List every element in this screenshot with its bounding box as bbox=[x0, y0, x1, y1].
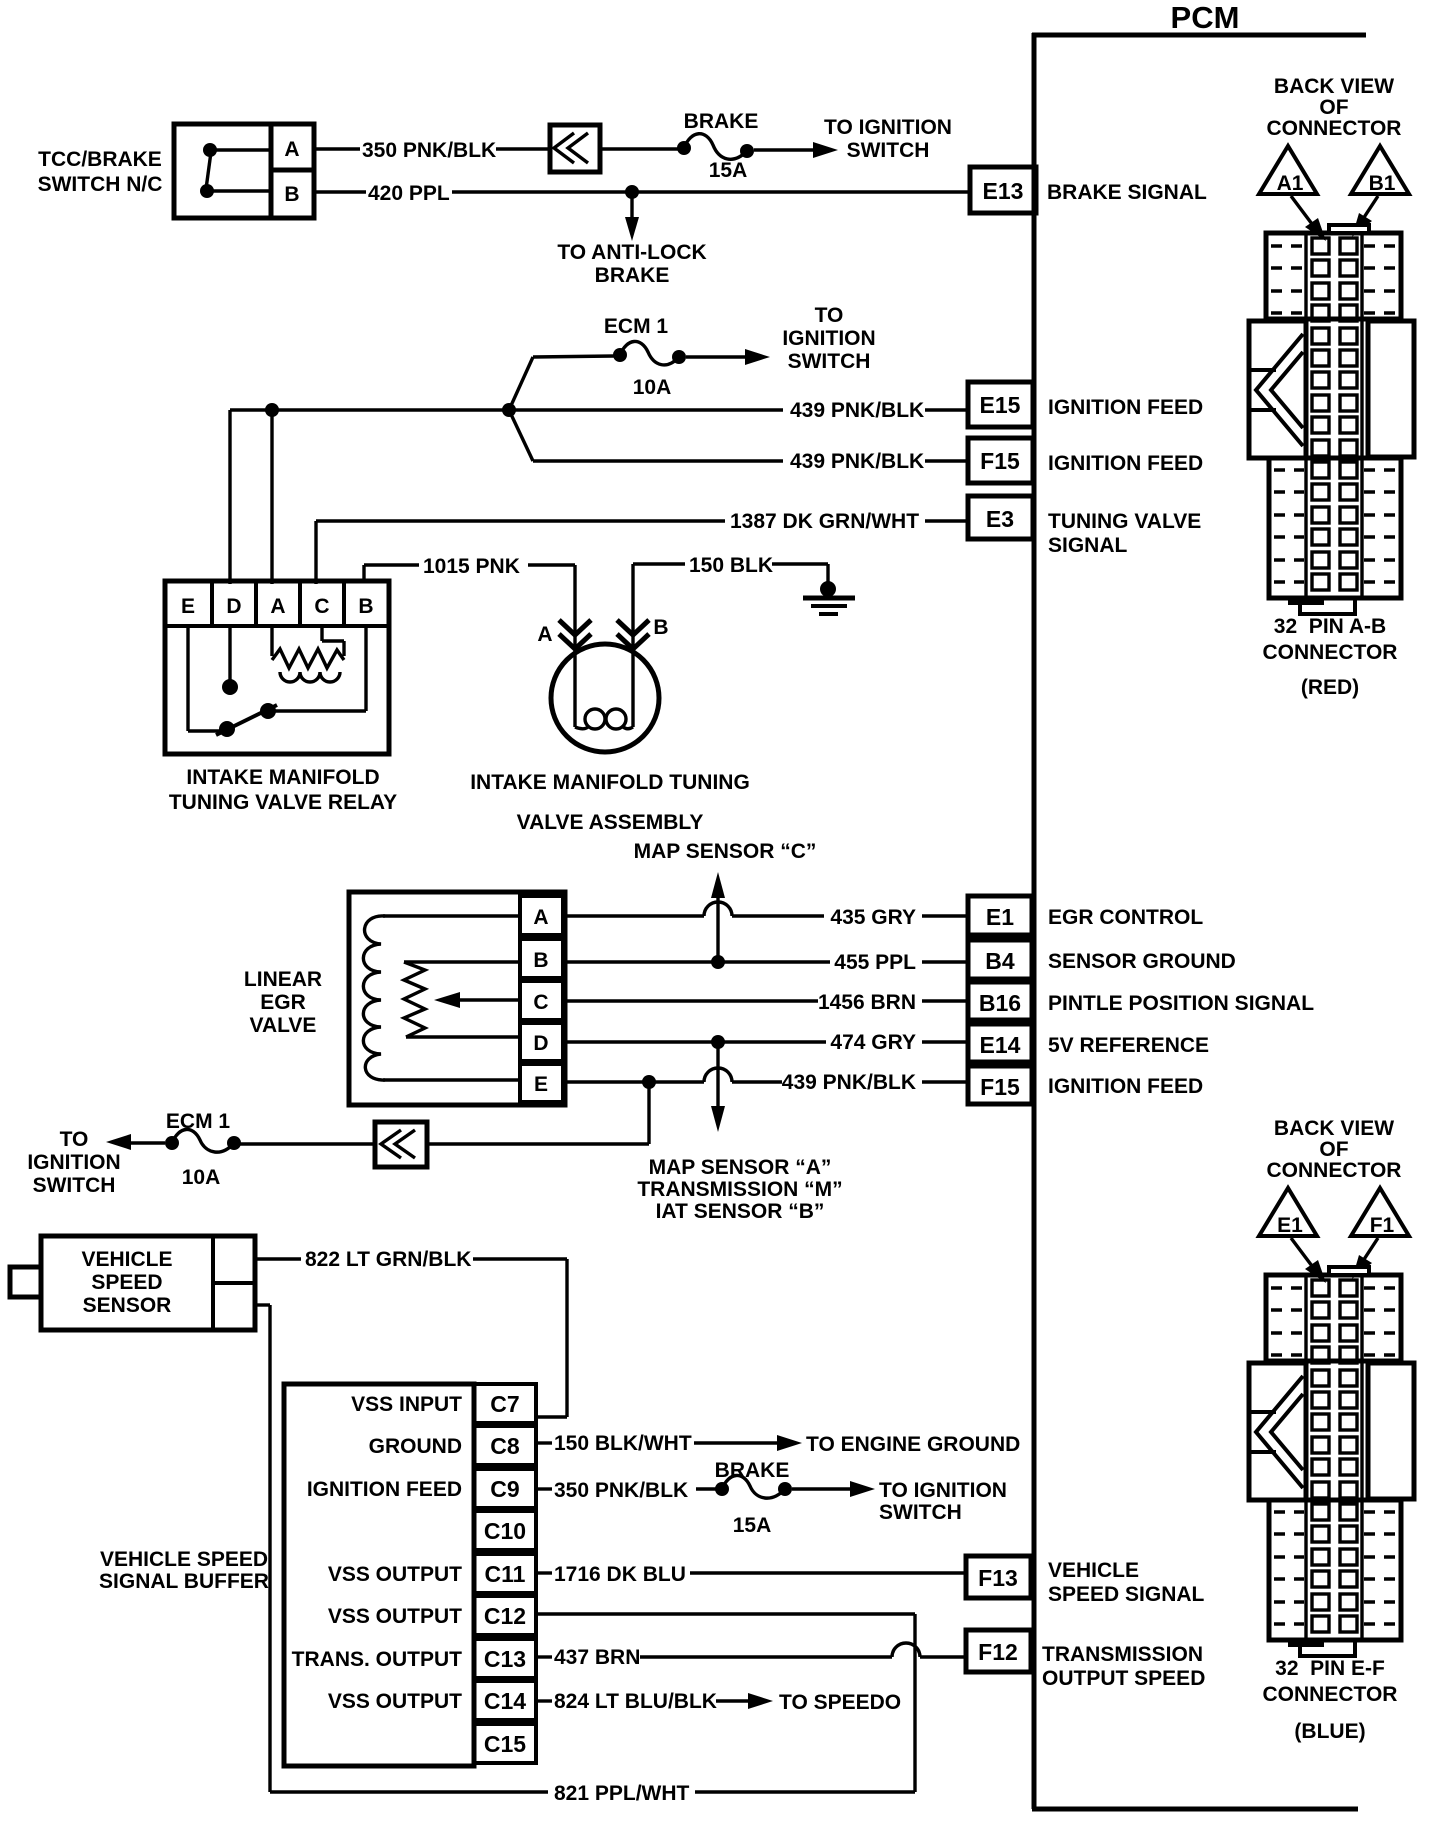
arrow TO IGNITION SWITCH bbox=[754, 116, 952, 162]
EGR solenoid coil bbox=[363, 916, 520, 1080]
svg-text:B16: B16 bbox=[979, 990, 1021, 1016]
pin F15 IGNITION FEED bbox=[968, 438, 1203, 483]
svg-text:435 GRY: 435 GRY bbox=[830, 906, 916, 929]
svg-text:SENSOR GROUND: SENSOR GROUND bbox=[1048, 950, 1236, 973]
svg-text:B: B bbox=[653, 616, 668, 639]
wire 474 GRY to E14 bbox=[563, 1031, 970, 1054]
svg-text:A1: A1 bbox=[1277, 172, 1304, 195]
wire 435 GRY to E1 bbox=[563, 902, 970, 929]
vehicle speed signal buffer bbox=[99, 1384, 536, 1766]
svg-text:MAP SENSOR “A”: MAP SENSOR “A” bbox=[649, 1156, 832, 1179]
svg-text:VALVE: VALVE bbox=[250, 1014, 317, 1037]
svg-text:TRANS. OUTPUT: TRANS. OUTPUT bbox=[292, 1648, 463, 1671]
svg-text:5V REFERENCE: 5V REFERENCE bbox=[1048, 1034, 1209, 1057]
svg-text:420 PPL: 420 PPL bbox=[368, 182, 450, 205]
svg-text:TO: TO bbox=[60, 1128, 89, 1151]
wire 455 PPL to B4 bbox=[563, 951, 970, 974]
svg-text:BRAKE: BRAKE bbox=[715, 1459, 790, 1482]
svg-text:ECM 1: ECM 1 bbox=[604, 315, 669, 338]
svg-text:TO SPEEDO: TO SPEEDO bbox=[779, 1691, 901, 1714]
valve assembly terminal B bbox=[617, 616, 669, 649]
svg-text:BACK VIEW: BACK VIEW bbox=[1274, 1117, 1394, 1140]
wire 821 PPL/WHT bbox=[255, 1305, 915, 1805]
inline connector symbol (lower) bbox=[375, 1122, 427, 1167]
svg-text:TUNING VALVE RELAY: TUNING VALVE RELAY bbox=[169, 791, 397, 814]
svg-text:350 PNK/BLK: 350 PNK/BLK bbox=[362, 139, 496, 162]
svg-text:A: A bbox=[284, 138, 299, 161]
wire 822 LT GRN/BLK bbox=[255, 1248, 567, 1417]
svg-text:1015 PNK: 1015 PNK bbox=[423, 555, 520, 578]
EGR pintle resistor bbox=[404, 962, 520, 1037]
svg-text:439 PNK/BLK: 439 PNK/BLK bbox=[782, 1071, 916, 1094]
svg-text:BRAKE: BRAKE bbox=[684, 110, 759, 133]
pin F15 IGNITION FEED (EGR) bbox=[968, 1066, 1203, 1104]
svg-text:TRANSMISSION “M”: TRANSMISSION “M” bbox=[637, 1178, 842, 1201]
svg-text:A: A bbox=[537, 623, 552, 646]
svg-text:10A: 10A bbox=[182, 1166, 221, 1189]
svg-text:PCM: PCM bbox=[1171, 0, 1240, 35]
svg-text:E1: E1 bbox=[1277, 1214, 1303, 1237]
svg-text:SWITCH: SWITCH bbox=[788, 350, 871, 373]
svg-text:C: C bbox=[533, 991, 548, 1014]
svg-text:350 PNK/BLK: 350 PNK/BLK bbox=[554, 1479, 688, 1502]
wire 350 PNK/BLK bbox=[314, 139, 550, 162]
wire fork to ECM1 fuse bbox=[509, 357, 533, 410]
svg-text:E15: E15 bbox=[980, 392, 1021, 418]
wire 1456 BRN to B16 bbox=[563, 991, 970, 1014]
arrow TO ANTI-LOCK BRAKE bbox=[557, 192, 706, 287]
svg-text:SENSOR: SENSOR bbox=[83, 1294, 172, 1317]
svg-text:TCC/BRAKE: TCC/BRAKE bbox=[38, 148, 162, 171]
pin E3 TUNING VALVE SIGNAL bbox=[968, 496, 1201, 557]
pin B4 SENSOR GROUND bbox=[968, 940, 1236, 979]
wire 1015 PNK bbox=[364, 555, 575, 727]
svg-text:E: E bbox=[181, 595, 195, 618]
fuse BRAKE 15A bbox=[677, 110, 758, 182]
svg-text:822 LT GRN/BLK: 822 LT GRN/BLK bbox=[305, 1248, 471, 1271]
pin F12 TRANSMISSION OUTPUT SPEED bbox=[966, 1630, 1205, 1690]
svg-text:C7: C7 bbox=[490, 1391, 519, 1417]
wire 1716 DK BLU to F13 bbox=[536, 1563, 968, 1586]
svg-text:C12: C12 bbox=[484, 1603, 526, 1629]
svg-text:TO IGNITION: TO IGNITION bbox=[879, 1479, 1007, 1502]
svg-text:C11: C11 bbox=[485, 1561, 526, 1587]
svg-text:(RED): (RED) bbox=[1301, 676, 1359, 699]
svg-text:32 PIN E-F: 32 PIN E-F bbox=[1275, 1657, 1385, 1680]
svg-text:455 PPL: 455 PPL bbox=[834, 951, 916, 974]
svg-text:C9: C9 bbox=[490, 1476, 519, 1502]
svg-text:OUTPUT SPEED: OUTPUT SPEED bbox=[1042, 1667, 1205, 1690]
svg-text:1716 DK BLU: 1716 DK BLU bbox=[554, 1563, 686, 1586]
svg-text:IGNITION FEED: IGNITION FEED bbox=[1048, 396, 1203, 419]
vehicle speed sensor bbox=[10, 1236, 255, 1330]
svg-text:824 LT BLU/BLK: 824 LT BLU/BLK bbox=[554, 1690, 717, 1713]
wire 420 PPL to E13 bbox=[314, 182, 970, 205]
svg-text:IGNITION FEED: IGNITION FEED bbox=[1048, 452, 1203, 475]
inline connector symbol bbox=[550, 125, 600, 172]
svg-text:A: A bbox=[270, 595, 285, 618]
svg-text:439 PNK/BLK: 439 PNK/BLK bbox=[790, 399, 924, 422]
svg-text:TO ENGINE GROUND: TO ENGINE GROUND bbox=[806, 1433, 1020, 1456]
svg-text:BACK VIEW: BACK VIEW bbox=[1274, 75, 1394, 98]
wire 824 LT BLU/BLK TO SPEEDO bbox=[536, 1690, 901, 1714]
pin F13 VEHICLE SPEED SIGNAL bbox=[966, 1556, 1205, 1606]
arrow TO IGNITION SWITCH (lower left) bbox=[27, 1128, 165, 1197]
svg-text:437 BRN: 437 BRN bbox=[554, 1646, 640, 1669]
svg-text:IGNITION: IGNITION bbox=[27, 1151, 120, 1174]
wire 437 BRN to F12 bbox=[536, 1643, 968, 1669]
svg-text:VSS OUTPUT: VSS OUTPUT bbox=[328, 1690, 462, 1713]
linear EGR valve bbox=[244, 892, 565, 1105]
svg-text:CONNECTOR: CONNECTOR bbox=[1263, 1683, 1398, 1706]
svg-text:OF: OF bbox=[1319, 1138, 1348, 1161]
svg-text:B4: B4 bbox=[985, 948, 1015, 974]
svg-text:10A: 10A bbox=[633, 376, 672, 399]
svg-text:VSS INPUT: VSS INPUT bbox=[351, 1393, 462, 1416]
svg-text:BRAKE: BRAKE bbox=[595, 264, 670, 287]
svg-text:INTAKE MANIFOLD TUNING: INTAKE MANIFOLD TUNING bbox=[470, 771, 750, 794]
svg-text:SPEED SIGNAL: SPEED SIGNAL bbox=[1048, 1583, 1205, 1606]
svg-text:TRANSMISSION: TRANSMISSION bbox=[1042, 1643, 1203, 1666]
svg-text:MAP SENSOR “C”: MAP SENSOR “C” bbox=[634, 840, 817, 863]
svg-text:SWITCH: SWITCH bbox=[33, 1174, 116, 1197]
svg-text:LINEAR: LINEAR bbox=[244, 968, 322, 991]
relay switch contacts bbox=[188, 626, 366, 737]
connector 32 PIN A-B (RED) back view bbox=[1249, 75, 1414, 699]
svg-text:SWITCH N/C: SWITCH N/C bbox=[38, 173, 163, 196]
svg-text:OF: OF bbox=[1319, 96, 1348, 119]
svg-text:SWITCH: SWITCH bbox=[879, 1501, 962, 1524]
svg-text:821 PPL/WHT: 821 PPL/WHT bbox=[554, 1782, 690, 1805]
svg-text:B: B bbox=[358, 595, 373, 618]
fuse ECM 1 10A (lower) bbox=[165, 1110, 375, 1189]
wire 350 PNK/BLK with fuse BRAKE 15A (buffer) bbox=[536, 1459, 1007, 1537]
svg-text:1456 BRN: 1456 BRN bbox=[818, 991, 916, 1014]
svg-text:D: D bbox=[226, 595, 241, 618]
svg-text:VSS OUTPUT: VSS OUTPUT bbox=[328, 1605, 462, 1628]
svg-text:EGR CONTROL: EGR CONTROL bbox=[1048, 906, 1203, 929]
svg-text:CONNECTOR: CONNECTOR bbox=[1267, 117, 1402, 140]
svg-text:CONNECTOR: CONNECTOR bbox=[1263, 641, 1398, 664]
svg-text:TO ANTI-LOCK: TO ANTI-LOCK bbox=[557, 241, 706, 264]
relay INTAKE MANIFOLD TUNING VALVE RELAY bbox=[165, 581, 397, 814]
svg-text:CONNECTOR: CONNECTOR bbox=[1267, 1159, 1402, 1182]
relay coil bbox=[272, 626, 344, 682]
wire 150 BLK bbox=[633, 554, 828, 727]
svg-text:15A: 15A bbox=[733, 1514, 772, 1537]
svg-text:C8: C8 bbox=[490, 1433, 520, 1459]
PCM module outline bbox=[1032, 0, 1366, 1809]
svg-text:TO: TO bbox=[815, 304, 844, 327]
svg-text:A: A bbox=[533, 906, 548, 929]
wire to fuse bbox=[600, 147, 678, 150]
svg-text:VEHICLE SPEED: VEHICLE SPEED bbox=[100, 1548, 268, 1571]
svg-text:474 GRY: 474 GRY bbox=[830, 1031, 916, 1054]
pin E13 BRAKE SIGNAL bbox=[970, 167, 1207, 213]
svg-text:E1: E1 bbox=[986, 904, 1014, 930]
svg-text:439 PNK/BLK: 439 PNK/BLK bbox=[790, 450, 924, 473]
svg-text:IGNITION FEED: IGNITION FEED bbox=[1048, 1075, 1203, 1098]
ground bbox=[803, 581, 855, 614]
pin E15 IGNITION FEED bbox=[968, 382, 1203, 427]
svg-text:IAT SENSOR “B”: IAT SENSOR “B” bbox=[656, 1200, 825, 1223]
svg-text:D: D bbox=[533, 1032, 548, 1055]
svg-text:TO IGNITION: TO IGNITION bbox=[824, 116, 952, 139]
svg-text:SWITCH: SWITCH bbox=[847, 139, 930, 162]
svg-text:C: C bbox=[314, 595, 329, 618]
svg-text:15A: 15A bbox=[709, 159, 748, 182]
svg-text:C14: C14 bbox=[484, 1688, 526, 1714]
svg-text:E14: E14 bbox=[980, 1032, 1021, 1058]
connector 32 PIN E-F (BLUE) back view bbox=[1249, 1117, 1414, 1743]
svg-text:SPEED: SPEED bbox=[91, 1271, 162, 1294]
svg-text:C15: C15 bbox=[484, 1731, 526, 1757]
svg-text:150 BLK: 150 BLK bbox=[689, 554, 773, 577]
svg-text:SIGNAL BUFFER: SIGNAL BUFFER bbox=[99, 1570, 269, 1593]
svg-text:E: E bbox=[534, 1073, 548, 1096]
svg-text:(BLUE): (BLUE) bbox=[1294, 1720, 1365, 1743]
svg-text:E13: E13 bbox=[983, 178, 1024, 204]
svg-text:VALVE ASSEMBLY: VALVE ASSEMBLY bbox=[517, 811, 704, 834]
node MAP SENSOR C tap bbox=[634, 840, 817, 962]
svg-text:VEHICLE: VEHICLE bbox=[81, 1248, 172, 1271]
fuse ECM 1 10A bbox=[604, 315, 686, 399]
svg-text:B: B bbox=[533, 949, 548, 972]
svg-text:F1: F1 bbox=[1370, 1214, 1395, 1237]
svg-text:B1: B1 bbox=[1369, 172, 1396, 195]
svg-text:1387 DK GRN/WHT: 1387 DK GRN/WHT bbox=[730, 510, 919, 533]
svg-text:VSS OUTPUT: VSS OUTPUT bbox=[328, 1563, 462, 1586]
svg-text:VEHICLE: VEHICLE bbox=[1048, 1559, 1139, 1582]
wire 439 PNK/BLK to E15 bbox=[509, 399, 970, 422]
svg-text:C10: C10 bbox=[484, 1518, 526, 1544]
svg-text:IGNITION: IGNITION bbox=[782, 327, 875, 350]
wire 150 BLK/WHT TO ENGINE GROUND bbox=[536, 1432, 1020, 1456]
wire 439 PNK/BLK to F15 bbox=[563, 1068, 970, 1094]
svg-text:C13: C13 bbox=[484, 1646, 526, 1672]
pin E1 EGR CONTROL bbox=[968, 896, 1203, 935]
svg-text:32 PIN A-B: 32 PIN A-B bbox=[1274, 615, 1386, 638]
svg-text:INTAKE MANIFOLD: INTAKE MANIFOLD bbox=[186, 766, 379, 789]
node MAP/TRANS/IAT tap bbox=[637, 1042, 842, 1223]
EGR wiper arrow bbox=[434, 992, 520, 1008]
svg-text:F13: F13 bbox=[978, 1565, 1018, 1591]
svg-text:BRAKE SIGNAL: BRAKE SIGNAL bbox=[1047, 181, 1207, 204]
svg-text:F15: F15 bbox=[980, 1074, 1020, 1100]
svg-text:PINTLE POSITION SIGNAL: PINTLE POSITION SIGNAL bbox=[1048, 992, 1314, 1015]
switch TCC/BRAKE SWITCH N/C bbox=[38, 124, 314, 218]
wire EGR ignition feed to ECM1 fuse bbox=[429, 1082, 649, 1144]
svg-text:EGR: EGR bbox=[260, 991, 306, 1014]
svg-text:TUNING VALVE: TUNING VALVE bbox=[1048, 510, 1201, 533]
svg-text:GROUND: GROUND bbox=[369, 1435, 462, 1458]
svg-text:E3: E3 bbox=[986, 506, 1014, 532]
pin E14 5V REFERENCE bbox=[968, 1024, 1209, 1062]
pin B16 PINTLE POSITION SIGNAL bbox=[968, 982, 1314, 1020]
svg-text:F12: F12 bbox=[978, 1639, 1018, 1665]
svg-text:ECM 1: ECM 1 bbox=[166, 1110, 231, 1133]
svg-text:B: B bbox=[284, 183, 299, 206]
arrow TO IGNITION SWITCH (upper middle) bbox=[686, 304, 876, 373]
intake manifold tuning valve assembly bbox=[470, 644, 750, 834]
wire 1387 DK GRN/WHT to E3 bbox=[316, 510, 970, 584]
svg-text:IGNITION FEED: IGNITION FEED bbox=[307, 1478, 462, 1501]
wire 439 PNK/BLK to F15 bbox=[509, 410, 970, 473]
svg-text:F15: F15 bbox=[980, 448, 1020, 474]
svg-text:SIGNAL: SIGNAL bbox=[1048, 534, 1128, 557]
svg-text:150 BLK/WHT: 150 BLK/WHT bbox=[554, 1432, 692, 1455]
valve assembly terminal A bbox=[537, 620, 591, 649]
wire ignition feed bus bbox=[230, 403, 516, 584]
